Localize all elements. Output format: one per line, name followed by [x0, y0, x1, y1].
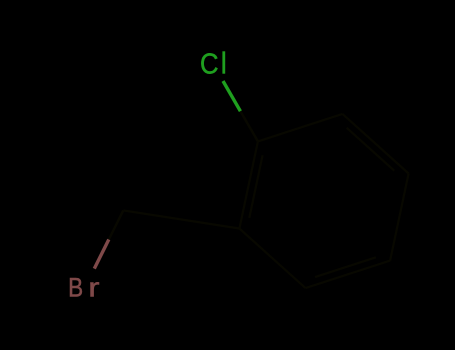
- benzene ring edge C1-C2: [239, 141, 258, 228]
- benzene ring edge C5-C6: [306, 261, 391, 289]
- svg-text:B: B: [68, 272, 83, 302]
- benzene ring edge C2-C3: [258, 114, 343, 141]
- bond C1-CH2 (dark): [123, 210, 239, 228]
- bond C2-Cl carbon half (dark): [240, 111, 258, 141]
- bond C2-Cl chlorine half (green): [223, 81, 240, 111]
- double bond inner line C5=C6: [315, 257, 376, 277]
- bond CH2-Br carbon half (dark): [109, 210, 124, 239]
- atom label Cl : letter l as bar: [222, 51, 225, 73]
- benzene ring edge C3-C4: [343, 114, 409, 174]
- svg-text:r: r: [88, 274, 99, 302]
- benzene ring edge C4-C5: [390, 174, 409, 261]
- double bond inner line C1=C2: [249, 155, 262, 218]
- bond CH2-Br bromine half (maroon): [94, 240, 109, 269]
- double bond inner line C3=C4: [347, 128, 395, 171]
- benzene ring edge C6-C1: [239, 229, 305, 289]
- svg-text:C: C: [200, 47, 219, 80]
